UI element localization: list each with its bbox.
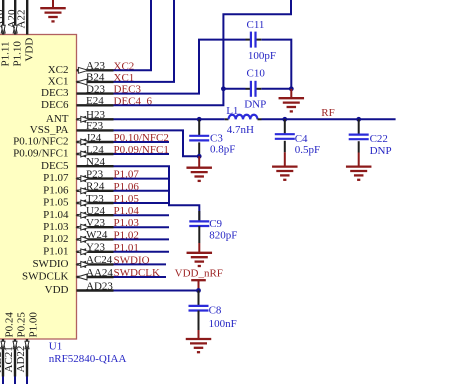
- wire C11 stubs: [246, 39, 252, 41]
- svg-text:DNP: DNP: [244, 99, 266, 111]
- svg-text:L1: L1: [226, 105, 238, 117]
- pin SWDIO (AC24): [77, 263, 114, 265]
- ground C4: [272, 167, 298, 180]
- svg-text:P1.06: P1.06: [43, 184, 69, 196]
- svg-text:P1.03: P1.03: [43, 221, 69, 233]
- svg-text:P1.05: P1.05: [43, 197, 69, 209]
- svg-text:F23: F23: [86, 120, 104, 132]
- svg-text:P0.10/NFC2: P0.10/NFC2: [13, 136, 68, 148]
- ground C10/C11: [279, 98, 305, 111]
- svg-text:P1.11: P1.11: [0, 42, 11, 67]
- wire P0.25 continuation: [14, 377, 16, 384]
- svg-text:SWDCLK: SWDCLK: [22, 271, 69, 283]
- pin DEC3 (D23): [77, 92, 114, 94]
- svg-text:U24: U24: [86, 205, 105, 217]
- svg-text:A23: A23: [86, 60, 105, 72]
- wire P1.07 stub: [114, 178, 170, 180]
- pin VSS_PA (F23): [77, 129, 114, 131]
- wire P1.00 continuation: [26, 377, 28, 384]
- pin P1.03 (V23): [77, 226, 114, 228]
- IC U1 body (nRF52840 rectangle): [0, 35, 77, 340]
- wire P0.10/NFC2 stub: [114, 141, 170, 143]
- svg-text:4.7nH: 4.7nH: [227, 124, 254, 136]
- svg-text:C9: C9: [209, 218, 222, 230]
- svg-text:DEC6: DEC6: [41, 99, 69, 111]
- svg-text:P1.01: P1.01: [43, 245, 68, 257]
- capacitor C3: [189, 136, 209, 141]
- svg-text:P0.24: P0.24: [4, 312, 16, 338]
- svg-text:P1.04: P1.04: [43, 209, 69, 221]
- wire C3 bottom stub: [198, 142, 200, 156]
- pin P1.04 (U24): [77, 214, 114, 216]
- svg-text:0.8pF: 0.8pF: [210, 143, 235, 155]
- svg-text:B24: B24: [86, 72, 105, 84]
- ground C22: [346, 167, 372, 180]
- svg-text:E24: E24: [86, 95, 104, 107]
- svg-text:VSS_PA: VSS_PA: [30, 124, 69, 136]
- svg-text:D23: D23: [86, 83, 105, 95]
- svg-text:AD23: AD23: [86, 280, 113, 292]
- wire P1.04 stub: [114, 214, 170, 216]
- wire C9 bottom stub: [198, 226, 200, 243]
- pin XC1 (B24): [77, 81, 114, 83]
- svg-text:100pF: 100pF: [248, 50, 276, 62]
- wire L1 to RF end: [262, 118, 396, 120]
- node VDD/C8 junction: [196, 288, 201, 293]
- pin P0.09/NFC1 (L24): [77, 153, 114, 155]
- wire P1.01 stub: [114, 251, 170, 253]
- wire C3 top stub: [198, 119, 200, 136]
- wire SWDCLK stub: [114, 276, 167, 278]
- wire C8 bottom stub: [198, 311, 200, 331]
- pin P1.10 top stub: [14, 0, 16, 35]
- capacitor C11: [251, 32, 256, 48]
- svg-text:AD22: AD22: [15, 346, 27, 373]
- pin SWDCLK (AA24): [77, 276, 114, 278]
- wire C22 top stub: [358, 119, 360, 134]
- svg-text:P1.10: P1.10: [11, 41, 23, 67]
- svg-text:P0.09/NFC1: P0.09/NFC1: [13, 148, 68, 160]
- node C3/ground junction: [197, 154, 202, 159]
- svg-text:P1.00: P1.00: [28, 312, 40, 338]
- svg-text:DEC5: DEC5: [41, 160, 69, 172]
- pin DEC6 (E24): [77, 104, 114, 106]
- node C4 junction: [282, 117, 287, 122]
- wire C8 top stub: [198, 291, 200, 306]
- wire P1.03 stub: [114, 226, 170, 228]
- svg-text:C11: C11: [247, 19, 265, 31]
- svg-text:L24: L24: [86, 144, 104, 156]
- pin ANT (H23): [77, 118, 114, 120]
- pin XC2 (A23): [77, 69, 114, 71]
- wire C9 top stub: [198, 211, 200, 221]
- wire SWDIO stub: [114, 263, 167, 265]
- wire XC1 to crystal (up): [114, 0, 175, 82]
- svg-text:T23: T23: [86, 193, 104, 205]
- pin P1.11 top stub: [2, 0, 4, 35]
- wire C10 right: [261, 88, 291, 90]
- ground top: [40, 8, 66, 21]
- wire XC2 to crystal (up): [114, 0, 152, 70]
- svg-text:XC2: XC2: [48, 64, 69, 76]
- wire C10 stubs: [246, 88, 252, 90]
- svg-text:C10: C10: [247, 68, 266, 80]
- svg-text:0.5pF: 0.5pF: [295, 144, 320, 156]
- wire to top ground: [52, 0, 54, 8]
- svg-text:A22: A22: [16, 10, 28, 29]
- wire ANT to L1: [114, 118, 225, 120]
- svg-text:100nF: 100nF: [209, 318, 237, 330]
- wire VSS_PA to C3 bottom: [114, 130, 200, 156]
- wire DEC6 net to top: [114, 0, 292, 105]
- svg-text:AC21: AC21: [3, 346, 15, 372]
- svg-text:U1: U1: [49, 341, 62, 353]
- svg-text:XC1: XC1: [48, 76, 69, 88]
- wire P1.06 stub: [114, 190, 170, 192]
- pin P1.06 (R24): [77, 190, 114, 192]
- wire P0.24 continuation: [2, 377, 4, 384]
- svg-text:DNP: DNP: [370, 145, 392, 157]
- wire C10 left: [223, 88, 245, 90]
- capacitor C10: [251, 81, 256, 97]
- node DEC6/C10 junction: [221, 86, 226, 91]
- inductor L1: [225, 118, 229, 120]
- svg-text:nRF52840-QIAA: nRF52840-QIAA: [49, 353, 127, 365]
- svg-text:P1.02: P1.02: [43, 233, 68, 245]
- svg-text:P1.07: P1.07: [43, 172, 69, 184]
- pin P0.25 bottom stub: [14, 339, 16, 377]
- node C10/C11 ground junction: [289, 86, 294, 91]
- wire P1.05 stub: [114, 202, 170, 204]
- svg-text:Y23: Y23: [86, 242, 105, 254]
- svg-text:SWDIO: SWDIO: [32, 258, 68, 270]
- capacitor C9: [189, 221, 209, 226]
- svg-text:V23: V23: [86, 217, 105, 229]
- node C22 junction: [356, 117, 361, 122]
- wire P0.09/NFC1 stub: [114, 153, 170, 155]
- capacitor C4: [275, 134, 295, 139]
- wire C22 bottom stub: [358, 141, 360, 152]
- pin P0.24 bottom stub: [2, 339, 4, 377]
- wire DEC5 to C9: [114, 166, 200, 221]
- svg-text:C8: C8: [209, 304, 222, 316]
- pin VDD top stub: [26, 0, 28, 35]
- pin VDD (AD23): [77, 289, 114, 291]
- capacitor C8: [189, 306, 209, 311]
- capacitor C22: [349, 135, 369, 140]
- wire C11 right: [261, 40, 291, 89]
- svg-text:DEC3: DEC3: [41, 87, 69, 99]
- svg-text:A18: A18: [0, 9, 5, 28]
- ground C8: [186, 339, 212, 352]
- svg-text:AA24: AA24: [86, 267, 113, 279]
- ground C9: [187, 253, 213, 266]
- pin P1.00 bottom stub: [26, 339, 28, 377]
- svg-text:C22: C22: [370, 133, 388, 145]
- svg-text:R24: R24: [86, 181, 105, 193]
- wire P1.02 stub: [114, 238, 170, 240]
- wire C4 top stub: [284, 119, 286, 134]
- svg-text:P0.25: P0.25: [16, 312, 28, 338]
- svg-text:J24: J24: [86, 132, 102, 144]
- pin P1.05 (T23): [77, 202, 114, 204]
- svg-text:AC24: AC24: [86, 254, 113, 266]
- pin P1.02 (W24): [77, 238, 114, 240]
- pin P0.10/NFC2 (J24): [77, 141, 114, 143]
- svg-text:VDD: VDD: [45, 284, 69, 296]
- pin P1.01 (Y23): [77, 251, 114, 253]
- wire DEC3 to C11: [114, 40, 246, 94]
- svg-text:W24: W24: [86, 229, 108, 241]
- svg-text:820pF: 820pF: [209, 230, 237, 242]
- svg-text:N24: N24: [86, 156, 105, 168]
- svg-text:P23: P23: [86, 168, 104, 180]
- pin DEC5 (N24): [77, 165, 114, 167]
- ground C3: [186, 168, 212, 181]
- wire C4 bottom stub: [284, 141, 286, 153]
- svg-text:VDD_nRF: VDD_nRF: [175, 268, 223, 280]
- wire VDD to C8: [114, 290, 199, 292]
- svg-text:VDD: VDD: [23, 38, 35, 62]
- power port VDD_nRF: [198, 280, 200, 290]
- node C3 junction: [197, 117, 202, 122]
- svg-text:RF: RF: [321, 107, 334, 119]
- pin P1.07 (P23): [77, 177, 114, 179]
